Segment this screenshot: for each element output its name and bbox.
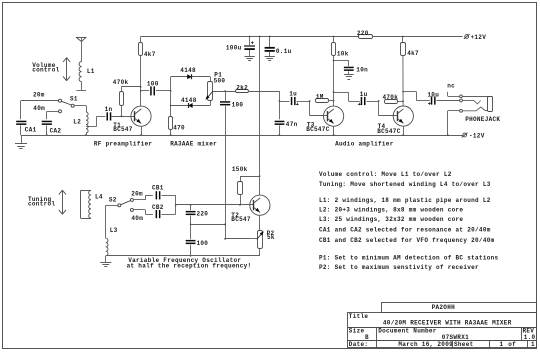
svg-text:PHONEJACK: PHONEJACK xyxy=(465,116,500,123)
svg-text:4148: 4148 xyxy=(180,67,196,74)
svg-text:4148: 4148 xyxy=(181,97,197,104)
svg-text:100: 100 xyxy=(147,81,159,88)
svg-text:March 16, 2009: March 16, 2009 xyxy=(398,341,453,348)
svg-text:2k2: 2k2 xyxy=(236,84,248,91)
svg-text:1.0: 1.0 xyxy=(524,334,536,341)
svg-text:CA1: CA1 xyxy=(25,127,37,134)
svg-text:40/20M RECEIVER WITH RA3AAE MI: 40/20M RECEIVER WITH RA3AAE MIXER xyxy=(383,319,512,326)
svg-text:Volume control: Move L1 to/ove: Volume control: Move L1 to/over L2 xyxy=(319,171,452,178)
svg-text:10u: 10u xyxy=(427,91,439,98)
svg-text:at half the reception frequenc: at half the reception frequency! xyxy=(127,263,252,270)
svg-text:20m: 20m xyxy=(131,191,143,198)
svg-text:1M: 1M xyxy=(316,93,324,100)
svg-text:Document Number: Document Number xyxy=(378,328,437,335)
svg-text:1n: 1n xyxy=(105,106,113,113)
svg-text:L2: 20+3 windings, 8x8 mm wood: L2: 20+3 windings, 8x8 mm wooden core xyxy=(319,207,463,214)
svg-text:10n: 10n xyxy=(356,66,368,73)
svg-text:1u: 1u xyxy=(289,90,297,97)
svg-text:Sheet: Sheet xyxy=(454,341,474,348)
svg-text:500: 500 xyxy=(214,78,226,85)
svg-text:RF preamplifier: RF preamplifier xyxy=(94,141,153,148)
svg-text:BC547C: BC547C xyxy=(306,126,330,133)
svg-text:B: B xyxy=(365,334,369,341)
svg-text:CB1 and CB2 selected for VFO f: CB1 and CB2 selected for VFO frequency 2… xyxy=(319,237,495,244)
svg-text:P1: Set to minimum AM detectio: P1: Set to minimum AM detection of BC st… xyxy=(319,254,499,261)
svg-text:100: 100 xyxy=(232,101,244,108)
svg-text:1u: 1u xyxy=(360,91,368,98)
svg-text:150k: 150k xyxy=(232,166,248,173)
svg-text:CB1: CB1 xyxy=(152,185,164,192)
svg-text:BC547: BC547 xyxy=(113,126,133,133)
svg-text:Audio amplifier: Audio amplifier xyxy=(335,141,394,148)
svg-text:L4: L4 xyxy=(95,193,103,200)
svg-text:07SWRX1: 07SWRX1 xyxy=(442,334,469,341)
svg-text:10k: 10k xyxy=(337,50,349,57)
svg-text:20m: 20m xyxy=(33,91,45,98)
svg-text:control: control xyxy=(32,66,59,73)
svg-text:100: 100 xyxy=(197,240,209,247)
svg-text:BC547C: BC547C xyxy=(377,128,401,135)
svg-text:RA3AAE mixer: RA3AAE mixer xyxy=(170,141,217,148)
svg-text:470k: 470k xyxy=(113,79,129,86)
svg-text:Title: Title xyxy=(349,313,369,320)
svg-text:+12V: +12V xyxy=(471,34,487,41)
svg-text:L2: L2 xyxy=(73,118,81,125)
svg-text:L3: 25 windings, 32x32 mm wood: L3: 25 windings, 32x32 mm wooden core xyxy=(319,216,463,223)
svg-text:5k: 5k xyxy=(267,234,275,241)
svg-text:100u: 100u xyxy=(226,44,242,51)
svg-text:of: of xyxy=(508,341,516,348)
svg-text:control: control xyxy=(28,201,55,208)
svg-text:-12V: -12V xyxy=(469,132,485,139)
svg-text:220: 220 xyxy=(357,30,369,37)
svg-text:0.1u: 0.1u xyxy=(276,48,292,55)
svg-text:S2: S2 xyxy=(109,197,117,204)
svg-text:47n: 47n xyxy=(286,121,298,128)
svg-text:40m: 40m xyxy=(33,105,45,112)
svg-text:S1: S1 xyxy=(70,96,78,103)
svg-text:40m: 40m xyxy=(131,215,143,222)
svg-text:PA2OHH: PA2OHH xyxy=(432,304,456,311)
svg-text:4k7: 4k7 xyxy=(144,51,156,58)
svg-text:Date:: Date: xyxy=(349,341,369,348)
svg-text:CA1 and CA2 selected for reson: CA1 and CA2 selected for resonance at 20… xyxy=(319,227,491,234)
svg-text:220: 220 xyxy=(197,211,209,218)
svg-text:L3: L3 xyxy=(110,227,118,234)
svg-text:470k: 470k xyxy=(383,94,399,101)
svg-text:L1: 2 windings, 18 mm plastic: L1: 2 windings, 18 mm plastic pipe aroun… xyxy=(319,197,491,204)
svg-text:4k7: 4k7 xyxy=(407,50,419,57)
svg-text:Size: Size xyxy=(349,328,365,335)
svg-text:470: 470 xyxy=(173,124,185,131)
svg-text:L1: L1 xyxy=(87,68,95,75)
svg-text:1: 1 xyxy=(500,341,504,348)
svg-text:CB2: CB2 xyxy=(152,204,164,211)
svg-text:P2: Set to maximum senstivity: P2: Set to maximum senstivity of receive… xyxy=(319,264,479,271)
svg-text:BC547: BC547 xyxy=(231,216,251,223)
svg-text:CA2: CA2 xyxy=(50,128,62,135)
svg-text:1: 1 xyxy=(531,341,535,348)
svg-text:Tuning: Move shortened winding: Tuning: Move shortened winding L4 to/ove… xyxy=(319,181,491,188)
svg-text:nc: nc xyxy=(447,83,455,90)
